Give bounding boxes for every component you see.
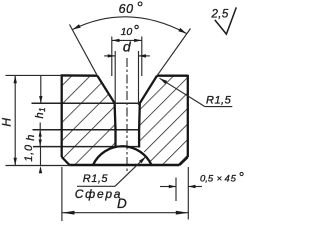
node transition line 2 (taper end, y=129.8) bbox=[33, 129, 140, 131]
node transition line 3 (hole bottom, y=146.6) bbox=[33, 146, 139, 148]
node leader sphere shelf bbox=[77, 185, 115, 187]
node leader sphere bbox=[115, 157, 146, 187]
node D dimension line bbox=[62, 212, 188, 214]
node d arrow right bbox=[139, 54, 147, 57]
wire right edge bbox=[187, 75, 189, 157]
wire D ext line left bbox=[61, 167, 63, 221]
svg-text:60: 60 bbox=[119, 2, 134, 16]
node h dimension line bbox=[39, 123, 41, 147]
svg-text:×: × bbox=[217, 174, 223, 185]
wire ext line 10deg right bbox=[141, 37, 143, 77]
node arc arrow right bbox=[178, 28, 186, 34]
node h arrow up bbox=[39, 130, 42, 137]
node H dimension line bbox=[14, 75, 16, 165]
wire hole wall right bbox=[138, 130, 140, 148]
node leader sphere arrow bbox=[139, 157, 146, 164]
node leader arrow bbox=[160, 78, 168, 84]
node 10deg dimension line bbox=[112, 39, 142, 41]
label 1,0 bbox=[23, 144, 35, 162]
svg-text:h: h bbox=[25, 135, 37, 141]
svg-text:2,5: 2,5 bbox=[211, 8, 229, 20]
node d dimension line left bbox=[104, 55, 115, 57]
wire top edge left bbox=[62, 74, 98, 77]
node chamfer dim line right bbox=[188, 186, 202, 188]
node transition line 1 (cone end, y=103.2) bbox=[32, 102, 140, 104]
wire 60deg cone left flank bbox=[97, 76, 114, 104]
svg-text:R1,5: R1,5 bbox=[206, 95, 232, 107]
node d dimension line right bbox=[139, 55, 150, 57]
node 60deg dimension arc bbox=[73, 17, 187, 34]
node D arrow left bbox=[62, 211, 75, 215]
svg-text:1,0: 1,0 bbox=[23, 144, 35, 162]
node 1,0 arrow outside below bbox=[39, 166, 42, 173]
node d arrow left bbox=[108, 54, 116, 57]
svg-text:0,5: 0,5 bbox=[200, 174, 214, 185]
node leader shelf bbox=[205, 106, 233, 108]
label h1 bbox=[34, 108, 47, 119]
node chamfer arrow right bbox=[188, 185, 195, 188]
node roughness check mark bbox=[215, 7, 237, 34]
wire 10deg taper left bbox=[113, 103, 116, 130]
node h arrow down bbox=[39, 140, 42, 147]
wire H extension bottom bbox=[6, 165, 71, 167]
section hatching left flank bbox=[62, 75, 116, 165]
node arc arrow left bbox=[73, 24, 81, 29]
node H arrow bottom bbox=[14, 158, 17, 166]
node H arrow top bbox=[14, 75, 17, 83]
wire ext line right edge down bbox=[187, 167, 189, 220]
wire chamfer bottom-right bbox=[180, 157, 188, 165]
wire hole wall left bbox=[114, 130, 116, 147]
wire cone flank extension right bbox=[157, 29, 191, 76]
wire bottom edge bbox=[70, 164, 180, 166]
centerline bbox=[126, 58, 128, 172]
svg-text:10: 10 bbox=[121, 26, 133, 38]
label h bbox=[25, 135, 37, 141]
node 1,0 dimension line bbox=[40, 146, 42, 166]
svg-text:Сфера: Сфера bbox=[75, 187, 122, 201]
label H bbox=[0, 118, 13, 127]
node D arrow right bbox=[176, 211, 189, 215]
wire cone flank extension left bbox=[70, 25, 98, 76]
wire chamfer bottom-left bbox=[62, 157, 70, 165]
wire left edge bbox=[61, 74, 63, 157]
node leader R1,5 top right bbox=[160, 78, 205, 106]
node 10deg arrow right bbox=[134, 39, 142, 42]
wire 60deg cone right flank bbox=[140, 76, 157, 104]
node 10deg arrow left bbox=[112, 39, 120, 42]
svg-text:45: 45 bbox=[225, 174, 237, 185]
wire ext line d right bbox=[138, 51, 140, 105]
wire ext line 10deg left bbox=[111, 37, 113, 77]
wire 10deg taper right bbox=[138, 103, 141, 130]
node sphere arc bbox=[93, 146, 152, 165]
wire H extension top bbox=[6, 74, 62, 76]
svg-text:h1: h1 bbox=[34, 108, 47, 119]
svg-text:H: H bbox=[0, 118, 13, 127]
node h1 arrow down bbox=[39, 96, 42, 103]
section hatching right flank bbox=[139, 76, 188, 165]
wire ext line chamfer bbox=[175, 178, 177, 202]
wire ext line d left bbox=[114, 51, 116, 105]
svg-text:D: D bbox=[117, 196, 127, 211]
node chamfer dim line left bbox=[160, 186, 176, 188]
node h1 dimension line bbox=[40, 76, 42, 103]
wire top edge right bbox=[157, 74, 188, 76]
node chamfer arrow left bbox=[169, 185, 176, 188]
svg-text:d: d bbox=[123, 38, 132, 54]
svg-text:R1,5: R1,5 bbox=[83, 173, 109, 185]
